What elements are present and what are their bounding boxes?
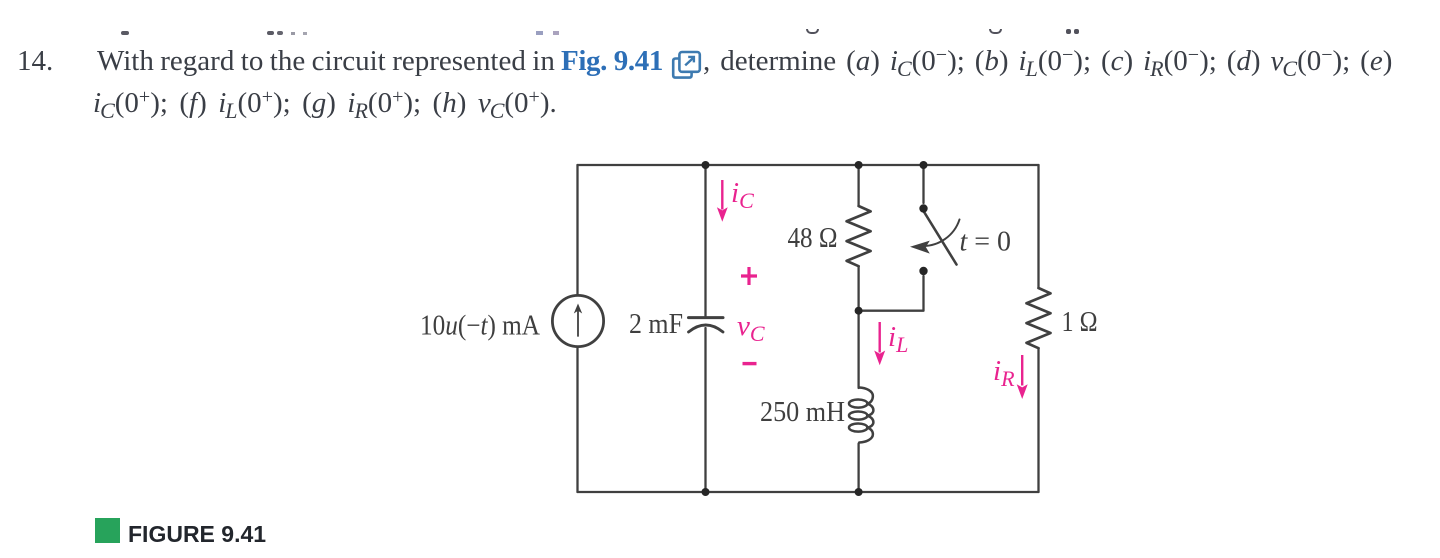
wire left below source	[576, 347, 578, 492]
node switch upper contact	[919, 204, 927, 212]
wire switch branch top	[922, 165, 924, 203]
wire 48ohm to junction	[857, 266, 859, 311]
external link icon	[671, 50, 703, 80]
current arrow iL	[879, 322, 881, 353]
current source arrow	[577, 309, 579, 336]
svg-text:vC: vC	[737, 310, 765, 346]
current source I1 circle	[552, 295, 603, 346]
figure caption text	[128, 521, 266, 548]
figure caption green square	[95, 518, 120, 543]
switch arc arrow	[922, 220, 960, 247]
wire capacitor branch lower	[704, 328, 706, 492]
capacitor C1 top plate	[689, 316, 724, 319]
problem text line 2	[93, 87, 557, 120]
problem number 14.	[17, 45, 53, 78]
svg-text:t = 0: t = 0	[960, 227, 1012, 258]
node bottom inductor	[855, 488, 863, 496]
node switch lower contact	[919, 267, 927, 275]
resistor 48ohm zigzag	[847, 206, 871, 266]
node top switch	[920, 161, 928, 169]
wire bottom	[578, 491, 1039, 493]
wire switch bottom lead	[859, 276, 924, 311]
svg-text:iC: iC	[731, 177, 754, 213]
wire inductor to bottom	[857, 444, 859, 493]
current arrow iR	[1021, 355, 1023, 386]
svg-text:1 Ω: 1 Ω	[1062, 307, 1098, 338]
svg-text:iL: iL	[888, 321, 908, 357]
svg-text:2 mF: 2 mF	[629, 309, 683, 340]
switch blade	[924, 211, 957, 265]
problem text link Fig. 9.41	[561, 45, 663, 78]
svg-text:250 mH: 250 mH	[760, 397, 845, 428]
problem text line 1b	[703, 45, 1392, 78]
switch arc arrowhead	[910, 241, 930, 254]
svg-text:48 Ω: 48 Ω	[788, 223, 838, 254]
svg-text:10u(−t) mA: 10u(−t) mA	[420, 311, 541, 342]
svg-text:iR: iR	[993, 355, 1015, 391]
node top 48ohm	[855, 161, 863, 169]
label plus	[741, 267, 757, 285]
current arrow iC	[721, 180, 723, 210]
wire 48ohm branch top	[857, 165, 859, 206]
wire top	[578, 164, 1039, 166]
cropped text fragments of previous line	[121, 31, 129, 35]
node top capacitor	[702, 161, 710, 169]
wire right edge lower	[1037, 348, 1039, 492]
wire junction to inductor	[857, 311, 859, 388]
node junction inductor	[855, 307, 863, 315]
wire right edge	[1037, 165, 1039, 288]
inductor 250mH coil	[849, 388, 873, 443]
resistor 1ohm zigzag	[1027, 288, 1051, 348]
wire capacitor branch upper	[704, 165, 706, 316]
label minus	[743, 362, 757, 365]
node bottom capacitor	[702, 488, 710, 496]
wire left above source	[576, 165, 578, 295]
problem text line 1a	[97, 45, 555, 78]
capacitor C1 bottom curved plate	[689, 325, 724, 332]
